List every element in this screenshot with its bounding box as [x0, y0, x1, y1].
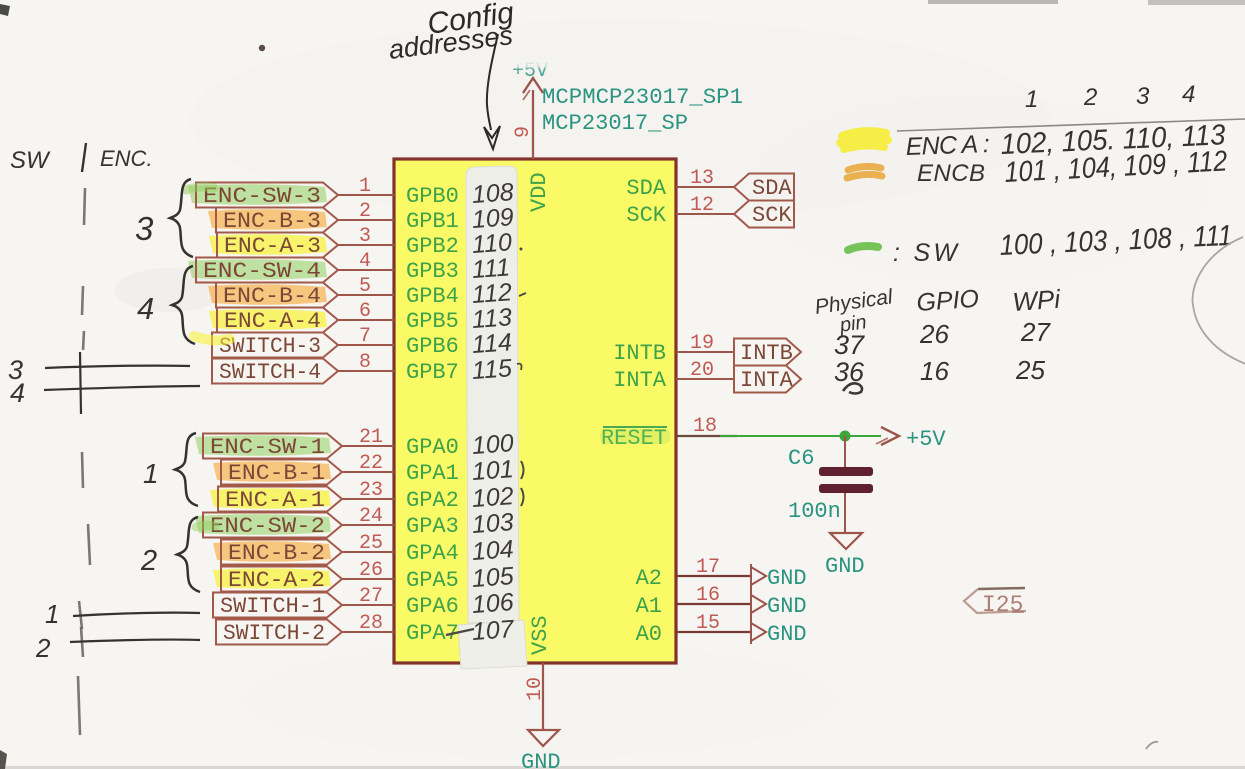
svg-text:GND: GND: [521, 750, 561, 769]
svg-text:ENC-B-4: ENC-B-4: [223, 284, 321, 309]
hierarchical label ENC-SW-1: [195, 435, 331, 456]
svg-text:12: 12: [690, 194, 714, 217]
svg-text:100n: 100n: [788, 499, 841, 524]
svg-text:2: 2: [35, 633, 51, 663]
svg-text:ENC-SW-4: ENC-SW-4: [203, 259, 321, 284]
svg-text:101: 101: [471, 455, 515, 486]
pencil arrow from note to chip: [487, 34, 498, 130]
svg-text:MCP23017_SP: MCP23017_SP: [542, 111, 688, 136]
ground arrow at y=576: [751, 567, 766, 585]
pin 17 A2 wire: [676, 575, 751, 577]
svg-text:7: 7: [359, 325, 371, 348]
pencil underline: [897, 119, 1245, 131]
svg-text:+5V: +5V: [906, 427, 946, 452]
svg-text:13: 13: [690, 167, 714, 190]
svg-text:INTA: INTA: [740, 368, 794, 393]
svg-text:17: 17: [696, 556, 720, 579]
svg-text:SWITCH-4: SWITCH-4: [219, 360, 321, 385]
pin 20 INTA wire: [676, 378, 734, 380]
svg-text:2: 2: [1083, 84, 1097, 111]
svg-text:SWITCH-2: SWITCH-2: [223, 621, 325, 646]
svg-text:4: 4: [1182, 81, 1195, 108]
svg-text:SDA: SDA: [626, 176, 666, 201]
pin 10 VSS wire to GND: [542, 663, 544, 730]
hand-drawn net label I25: [978, 588, 1025, 589]
svg-text:GPA2: GPA2: [406, 488, 459, 513]
svg-text:115: 115: [471, 354, 513, 385]
pin 6 GPB5 wire: [338, 319, 394, 321]
pin 2 GPB1 wire: [338, 219, 394, 221]
pin 12 SCK wire: [676, 213, 734, 215]
hierarchical label INTB: [734, 339, 801, 366]
pin 5 GPB4 wire: [338, 294, 394, 296]
svg-text:GPA1: GPA1: [406, 461, 459, 486]
svg-text:15: 15: [696, 612, 720, 635]
svg-text:103: 103: [471, 508, 515, 539]
pin 22 GPA1 wire: [342, 471, 394, 473]
svg-text:VDD: VDD: [527, 172, 552, 212]
svg-text:27: 27: [359, 585, 383, 608]
svg-text:24: 24: [359, 505, 383, 528]
ground arrow at y=632: [751, 623, 766, 641]
ground arrow at y=604: [751, 595, 766, 613]
svg-text:A0: A0: [636, 622, 662, 647]
svg-text:104: 104: [471, 535, 515, 566]
orange marker blob (ENC B): [847, 166, 882, 178]
svg-text:1: 1: [1025, 86, 1038, 113]
svg-text:GPB5: GPB5: [406, 309, 459, 334]
pin 16 A1 wire: [676, 603, 751, 605]
svg-text:16: 16: [920, 356, 949, 386]
svg-text:GPB3: GPB3: [406, 259, 459, 284]
svg-text:26: 26: [359, 559, 383, 582]
svg-text:25: 25: [1015, 355, 1045, 385]
hierarchical label ENC-B-2: [213, 541, 331, 562]
yellow marker blob (ENC A): [840, 131, 888, 149]
hierarchical label SWITCH-1: [213, 593, 342, 618]
pin 19 INTB wire: [676, 351, 734, 353]
svg-text:ENC-SW-1: ENC-SW-1: [210, 435, 325, 460]
hierarchical label SDA: [734, 174, 794, 201]
svg-text:23: 23: [359, 479, 383, 502]
svg-text:ENC-SW-3: ENC-SW-3: [203, 184, 321, 209]
svg-text:4: 4: [10, 378, 25, 408]
svg-text:2: 2: [140, 545, 157, 577]
pin 23 GPA2 wire: [342, 498, 394, 500]
svg-text:16: 16: [696, 584, 720, 607]
svg-text:VSS: VSS: [528, 615, 553, 655]
svg-text:SW: SW: [10, 147, 51, 174]
svg-text:25: 25: [359, 532, 383, 555]
svg-text:GPB0: GPB0: [406, 184, 459, 209]
pin 8 GPB7 wire: [338, 370, 394, 372]
pin 27 GPA6 wire: [342, 604, 394, 606]
svg-text:2: 2: [359, 200, 371, 223]
svg-text:I25: I25: [982, 592, 1023, 618]
pin 3 GPB2 wire: [338, 244, 394, 246]
correction tape patch bottom: [458, 620, 527, 669]
svg-text:C6: C6: [788, 446, 814, 471]
junction node RESET/C6/+5V: [840, 431, 851, 442]
svg-text:22: 22: [359, 452, 383, 475]
green marker blob (SW): [848, 246, 878, 250]
ground symbol below C6: [830, 533, 862, 549]
capacitor C6: [844, 436, 846, 467]
svg-text:4: 4: [137, 291, 154, 326]
svg-text:9: 9: [512, 126, 535, 138]
svg-text:SDA: SDA: [752, 176, 792, 201]
IC U1 MCP23017 body: [394, 159, 676, 663]
svg-text:WPi: WPi: [1011, 284, 1062, 317]
hierarchical label SWITCH-2: [216, 620, 342, 645]
svg-text:ENC-SW-2: ENC-SW-2: [210, 514, 325, 539]
svg-text:GPA4: GPA4: [406, 541, 459, 566]
ground symbol below pin 10: [528, 730, 559, 746]
pin 13 SDA wire: [676, 186, 734, 188]
svg-text:GPB2: GPB2: [406, 234, 459, 259]
svg-text:ENC-B-1: ENC-B-1: [228, 461, 325, 486]
hierarchical label SWITCH-3: [212, 333, 338, 358]
svg-text:ENC-B-2: ENC-B-2: [228, 541, 325, 566]
svg-text:1: 1: [143, 458, 159, 489]
wire RESET to +5V (green net): [720, 435, 881, 437]
svg-text:19: 19: [690, 332, 714, 355]
svg-text:ENC-B-3: ENC-B-3: [223, 209, 321, 234]
hierarchical label SCK: [734, 201, 794, 228]
svg-text:ENC-A-1: ENC-A-1: [225, 488, 325, 513]
svg-text:26: 26: [919, 319, 949, 349]
svg-text:GPA3: GPA3: [406, 514, 459, 539]
svg-text:SCK: SCK: [626, 203, 666, 228]
svg-text:INTA: INTA: [613, 368, 667, 393]
pin 26 GPA5 wire: [342, 578, 394, 580]
+5V power arrow: [881, 427, 899, 445]
svg-text:ENC-A-2: ENC-A-2: [228, 568, 325, 593]
green highlight over RESET: [600, 429, 670, 444]
svg-text:GPA0: GPA0: [406, 435, 459, 460]
hierarchical label ENC-A-4: [209, 309, 327, 330]
svg-text:27: 27: [1020, 317, 1051, 347]
svg-text:36: 36: [834, 357, 865, 387]
hierarchical label ENC-B-3: [208, 209, 327, 230]
svg-text:3: 3: [135, 210, 154, 247]
svg-text:107: 107: [471, 615, 516, 646]
svg-text:GND: GND: [767, 566, 807, 591]
hierarchical label ENC-SW-4: [188, 259, 327, 280]
svg-text:GND: GND: [825, 554, 865, 579]
svg-text:37: 37: [834, 330, 865, 360]
hierarchical label ENC-B-4: [208, 284, 327, 305]
dashed pencil separator line: [84, 188, 85, 225]
svg-text:GPA6: GPA6: [406, 594, 459, 619]
hierarchical label ENC-SW-3: [188, 184, 327, 205]
hierarchical label SWITCH-4: [212, 359, 338, 384]
svg-text:SCK: SCK: [752, 203, 792, 228]
pin 1 GPB0 wire: [338, 194, 394, 196]
svg-text:4: 4: [359, 250, 371, 273]
svg-text:3: 3: [359, 225, 371, 248]
svg-text:21: 21: [359, 426, 383, 449]
pin 7 GPB6 wire: [338, 344, 394, 346]
pencil arc artifact: [1193, 237, 1245, 364]
svg-text:ENC.: ENC.: [100, 146, 153, 171]
stray pencil marks right of tape: [521, 461, 524, 479]
pin 18 RESET stub: [676, 435, 737, 437]
hierarchical label INTA: [734, 366, 801, 393]
svg-text:GND: GND: [767, 622, 807, 647]
hierarchical label ENC-A-1: [210, 488, 331, 509]
svg-text:18: 18: [693, 415, 717, 438]
pin 15 A0 wire: [676, 631, 751, 633]
svg-text:6: 6: [359, 300, 371, 323]
svg-text:INTB: INTB: [613, 341, 666, 366]
svg-text:GPA5: GPA5: [406, 568, 459, 593]
svg-text:MCPMCP23017_SP1: MCPMCP23017_SP1: [542, 85, 743, 110]
pencil strike over GPA7: [446, 629, 474, 635]
svg-text:8: 8: [359, 351, 371, 374]
svg-text:INTB: INTB: [740, 341, 793, 366]
svg-text:ENC-A-3: ENC-A-3: [224, 234, 321, 259]
pin 24 GPA3 wire: [342, 524, 394, 526]
pin 28 GPA7 wire: [342, 631, 394, 633]
svg-text:ENC A :: ENC A :: [905, 130, 990, 161]
svg-text:GPB7: GPB7: [406, 360, 459, 385]
svg-text:GPB1: GPB1: [406, 209, 459, 234]
svg-text:1: 1: [45, 599, 59, 629]
GND net ties for A2 A1 A0: [750, 564, 752, 644]
stray pen squiggle: [843, 383, 862, 393]
svg-text:+5V: +5V: [512, 60, 548, 83]
svg-text:1: 1: [359, 175, 371, 198]
svg-text:3: 3: [1136, 83, 1150, 110]
pin 25 GPA4 wire: [342, 551, 394, 553]
hierarchical label ENC-A-2: [213, 568, 331, 589]
marker overshoots (decorative): [186, 187, 214, 190]
svg-text:GPB6: GPB6: [406, 334, 459, 359]
svg-text:20: 20: [690, 359, 714, 382]
svg-text:A2: A2: [636, 566, 662, 591]
svg-text:10: 10: [524, 677, 547, 701]
svg-text:A1: A1: [636, 594, 662, 619]
pin 21 GPA0 wire: [342, 445, 394, 447]
hierarchical label ENC-B-1: [213, 461, 331, 482]
svg-text:ENC-A-4: ENC-A-4: [224, 309, 321, 334]
pin 9 VDD wire to +5V: [532, 90, 534, 159]
svg-text:GPIO: GPIO: [916, 285, 980, 317]
svg-text:28: 28: [359, 612, 383, 635]
svg-text:: SW: : SW: [893, 239, 959, 267]
hierarchical label ENC-SW-2: [195, 514, 331, 535]
svg-text:GPB4: GPB4: [406, 284, 459, 309]
svg-text:106: 106: [471, 588, 515, 619]
hierarchical label ENC-A-3: [209, 234, 327, 255]
pin 4 GPB3 wire: [338, 269, 394, 271]
svg-text:5: 5: [359, 275, 371, 298]
svg-text:SWITCH-1: SWITCH-1: [220, 594, 325, 619]
svg-text:GND: GND: [767, 594, 807, 619]
correction tape strip over pin numbers: [466, 166, 519, 623]
svg-text:ENCB: ENCB: [917, 160, 985, 187]
